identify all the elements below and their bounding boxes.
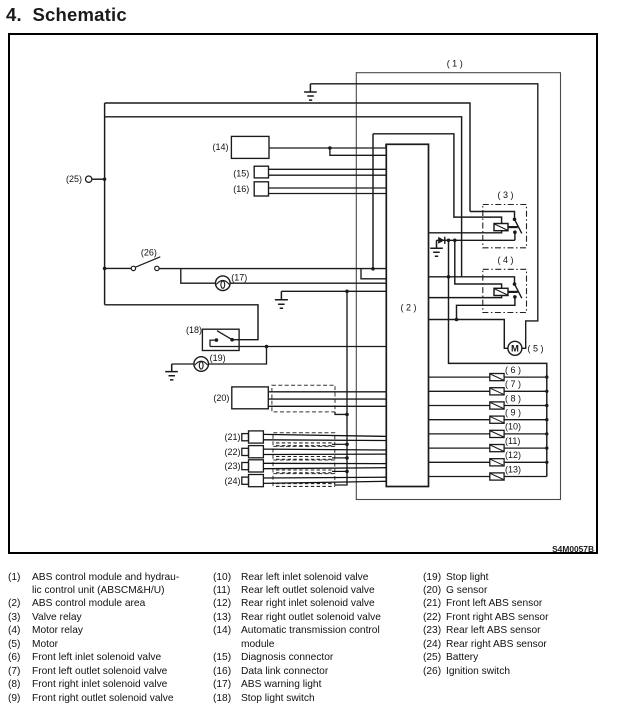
svg-text:( 4 ): ( 4 ) [497, 255, 513, 265]
label (19) [210, 353, 226, 363]
junction motor relay upper contact [513, 282, 517, 286]
sensor 21 dashed harness box [273, 433, 335, 446]
solenoid valve V13 (13) row [429, 473, 547, 480]
wire stop light to ground [172, 363, 194, 365]
junction bus row 12 [545, 461, 548, 464]
wire warning light to module [230, 282, 386, 284]
label (18) [186, 325, 202, 335]
bulb filament 19 [195, 361, 208, 369]
svg-text:(26): (26) [141, 248, 157, 258]
label (14) [212, 142, 228, 152]
wires data link connector to module [269, 188, 387, 194]
wire motor feed from module monitor pin [429, 320, 508, 349]
label (20) [213, 393, 229, 403]
wire valve relay lower contact stub [514, 232, 516, 240]
wire W ignition to bridge riser [372, 134, 374, 269]
junction motor relay feed at solenoid riser [447, 275, 451, 279]
wire sensor 21 shield stub [332, 443, 347, 445]
wires sensor 23 to module [263, 463, 386, 468]
svg-text:(24): (24) [224, 476, 240, 486]
stop light switch S2 (18) box [202, 329, 239, 350]
wire sensor 22 shield stub [332, 457, 347, 459]
front right ABS sensor B3 (22) connector [242, 446, 264, 458]
valve relay switch arm [515, 219, 522, 233]
wire motor relay coil feed riser [455, 240, 502, 288]
node label (1) [447, 58, 463, 68]
junction valve relay lower contact [513, 230, 517, 234]
wire valve relay output line with diode [437, 239, 515, 241]
wire line A battery to valve relay contact [105, 103, 470, 212]
rear left ABS sensor B4 (23) connector [242, 460, 264, 472]
label (13) [505, 464, 521, 474]
ground symbol G1 top (motor return) [304, 84, 317, 100]
wire motor relay lower contact to motor line [457, 297, 515, 320]
label (8) [505, 393, 521, 403]
ABS control module and hydraulic control unit box U1 [356, 73, 560, 500]
svg-text:( 3 ): ( 3 ) [497, 190, 513, 200]
wire motor relay coil return to module [429, 296, 502, 298]
diagnosis connector J1 (15) [254, 166, 268, 178]
label (11) [505, 436, 520, 446]
sensor 24 dashed harness box [273, 474, 335, 487]
wire motor relay upper contact feed [429, 277, 515, 284]
legend column 3 [423, 571, 549, 679]
wires sensor 21 to module [263, 434, 386, 440]
label (16) [233, 184, 249, 194]
junction valve relay upper contact [513, 218, 517, 222]
solenoid valve V8 (8) row [429, 402, 547, 409]
svg-text:(13): (13) [505, 464, 521, 474]
ignition switch blade [135, 257, 160, 267]
svg-text:(16): (16) [233, 184, 249, 194]
wire ignition output to module [159, 268, 386, 270]
wire stop light branch [209, 347, 267, 365]
svg-text:( 7 ): ( 7 ) [505, 379, 521, 389]
wire valve relay coil return to module [429, 231, 502, 233]
solenoid valve V9 (9) row [429, 416, 547, 423]
label (7) [505, 379, 521, 389]
drawing code S4M0057B [450, 544, 594, 554]
wire ATC to module corner pin [269, 144, 386, 148]
junction ignition feed [103, 267, 107, 271]
motor relay switch arm [515, 284, 522, 298]
svg-text:(11): (11) [505, 436, 520, 446]
wire sensor 23 shield stub [332, 470, 347, 472]
junction G sensor shield [345, 413, 349, 417]
svg-text:(15): (15) [233, 168, 249, 178]
G sensor shielded harness dashed box [272, 385, 335, 412]
svg-text:( 6 ): ( 6 ) [505, 365, 521, 375]
diode D1 [438, 237, 445, 244]
wire stop light switch feed from battery bus [105, 305, 258, 340]
junction valve output to solenoid bus riser [447, 239, 451, 243]
svg-text:( 8 ): ( 8 ) [505, 393, 521, 403]
junction bus row 8 [545, 404, 548, 407]
svg-text:M: M [511, 344, 519, 355]
svg-text:(23): (23) [224, 461, 240, 471]
sensor 22 shield dashed line [276, 457, 332, 460]
sensor 22 dashed harness box [273, 446, 335, 459]
wire sensor shield ground bus [335, 291, 347, 485]
junction sensor 23 shield [345, 470, 349, 474]
bulb filament 17 [216, 280, 229, 288]
label (9) [505, 408, 521, 418]
junction valve output to motor relay coil riser [453, 239, 457, 243]
sensor 21 shield dashed line [276, 443, 332, 446]
junction bus row 7 [545, 390, 548, 393]
sensor 24 shield dashed line [276, 484, 335, 487]
schematic frame [8, 33, 598, 554]
wire stop light switch output to module [210, 346, 386, 348]
solenoid valve V10 (10) row [429, 430, 547, 437]
wire ignition feed from battery bus [105, 267, 132, 269]
junction ATC branch [328, 146, 332, 150]
svg-text:( 2 ): ( 2 ) [400, 303, 416, 313]
junction bus row 6 [545, 375, 548, 378]
solenoid valve V6 (6) row [429, 374, 547, 381]
module ground wire [281, 290, 386, 292]
ground symbol G4 stop light [165, 364, 178, 380]
legend column 2 [213, 571, 381, 706]
label (6) [505, 365, 521, 375]
ignition switch S1 (26) contact circles [131, 266, 159, 270]
wires G sensor to module [268, 392, 386, 407]
wire ATC branch to module pin 2 [330, 148, 386, 155]
junction motor relay lower contact [513, 295, 517, 299]
wire G sensor shield to ground bus [335, 412, 347, 415]
motor relay coil K2 [494, 288, 508, 295]
sensor 23 shield dashed line [276, 470, 332, 473]
ABS control module area box U2 [386, 144, 428, 486]
label (12) [505, 450, 521, 460]
svg-text:( 5 ): ( 5 ) [528, 344, 544, 354]
motor letter M [511, 344, 519, 355]
motor relay coil actuator stub [508, 291, 518, 293]
label (22) [224, 447, 240, 457]
G sensor U4 (20) body [232, 387, 268, 409]
svg-text:( 1 ): ( 1 ) [447, 58, 463, 68]
wire motor return to top ground [310, 84, 537, 349]
valve relay K1 (3) dash-dot box [483, 205, 527, 248]
label (10) [505, 422, 521, 432]
valve relay coil actuator stub [508, 226, 518, 228]
wire ignition second pin jog [361, 269, 386, 279]
legend column 1 [8, 571, 179, 706]
sensor 23 dashed harness box [273, 460, 335, 473]
ABS warning light L1 (17) drop wire [181, 269, 216, 283]
junction motor feed line [455, 318, 459, 322]
wire bridge to valve relay coil [373, 134, 502, 224]
data link connector J2 (16) [254, 182, 268, 196]
junction stop light switch pivot [215, 338, 234, 342]
label (26) [141, 248, 157, 258]
junction stop light branch [265, 345, 269, 349]
svg-text:( 9 ): ( 9 ) [505, 408, 521, 418]
label (25) [66, 174, 82, 184]
ground symbol G3 diode clamp [430, 240, 443, 256]
solenoid valve V11 (11) row [429, 445, 547, 452]
automatic transmission control module box U3 (14) [231, 136, 269, 158]
label (3) [497, 190, 513, 200]
rear right ABS sensor B5 (24) connector [242, 475, 264, 487]
stop light switch fixed contact hook [210, 340, 216, 346]
wire line B battery to motor relay contact [105, 117, 462, 277]
battery B1 (25) terminal circle [86, 176, 92, 182]
svg-text:(17): (17) [231, 272, 247, 282]
svg-text:(19): (19) [210, 353, 226, 363]
junction bus row 10 [545, 432, 548, 435]
wire valve output to solenoid bus [449, 240, 547, 476]
junction battery tap [103, 178, 106, 181]
label (15) [233, 168, 249, 178]
motor relay K2 (4) dash-dot box [483, 269, 527, 312]
wire battery stub [92, 178, 105, 180]
motor M1 (5) [508, 341, 522, 355]
label (24) [224, 476, 240, 486]
junction W on ignition line [371, 267, 375, 271]
svg-text:(10): (10) [505, 422, 521, 432]
junction sensor 22 shield [345, 456, 349, 460]
svg-text:(18): (18) [186, 325, 202, 335]
svg-text:(12): (12) [505, 450, 521, 460]
svg-text:(25): (25) [66, 174, 82, 184]
label (4) [497, 255, 513, 265]
svg-text:(22): (22) [224, 447, 240, 457]
valve relay coil K1 [494, 224, 508, 231]
junction sensor 21 shield [345, 443, 349, 447]
wires diagnosis connector to module [269, 169, 387, 175]
wire battery vertical bus [104, 103, 106, 305]
wires sensor 24 to module [263, 477, 386, 483]
junction bus row 9 [545, 418, 548, 421]
wires sensor 22 to module [263, 449, 386, 454]
junction bus row 11 [545, 446, 548, 449]
label (23) [224, 461, 240, 471]
front left ABS sensor B2 (21) connector [242, 431, 264, 443]
label (5) [528, 344, 544, 354]
stop light switch blade [217, 331, 232, 340]
node label (2) [400, 303, 416, 313]
svg-text:(14): (14) [212, 142, 228, 152]
label (21) [224, 432, 240, 442]
svg-text:(20): (20) [213, 393, 229, 403]
svg-text:(21): (21) [224, 432, 240, 442]
junction ground bus tap [345, 290, 349, 294]
ground symbol G2 module [275, 291, 288, 308]
label (17) [231, 272, 247, 282]
wire valve relay upper contact feed [470, 212, 515, 220]
stop light L2 (19) bulb [194, 357, 209, 372]
solenoid valve V12 (12) row [429, 459, 547, 466]
solenoid valve V7 (7) row [429, 388, 547, 395]
ABS warning light bulb [216, 276, 231, 291]
